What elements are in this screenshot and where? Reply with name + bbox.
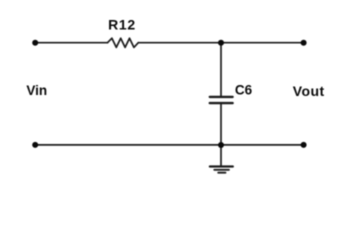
svg-text:Vin: Vin <box>26 83 47 98</box>
wire top-right segment (node A to Vout node) <box>221 42 304 44</box>
svg-text:Vout: Vout <box>293 83 325 99</box>
wire ground stub <box>220 145 222 166</box>
wire capacitor upper lead <box>220 43 222 96</box>
node A junction <box>218 40 224 46</box>
ground <box>210 167 233 173</box>
node B junction <box>218 142 224 148</box>
wire capacitor lower lead (to node B) <box>220 104 222 145</box>
node Vin top terminal <box>32 40 38 46</box>
resistor R12 <box>108 38 139 47</box>
node Vout top terminal <box>301 40 307 46</box>
svg-text:C6: C6 <box>235 83 253 98</box>
node Vin bottom terminal <box>32 142 38 148</box>
svg-text:R12: R12 <box>108 17 136 33</box>
wire top-middle segment (resistor to node A) <box>138 42 221 44</box>
wire top-left segment (Vin node to resistor) <box>35 42 107 44</box>
wire bottom-left segment (Vin return to node B) <box>35 144 221 146</box>
wire bottom-right segment (node B to Vout return) <box>221 144 304 146</box>
node Vout bottom terminal <box>301 142 307 148</box>
capacitor C6 <box>210 97 233 103</box>
